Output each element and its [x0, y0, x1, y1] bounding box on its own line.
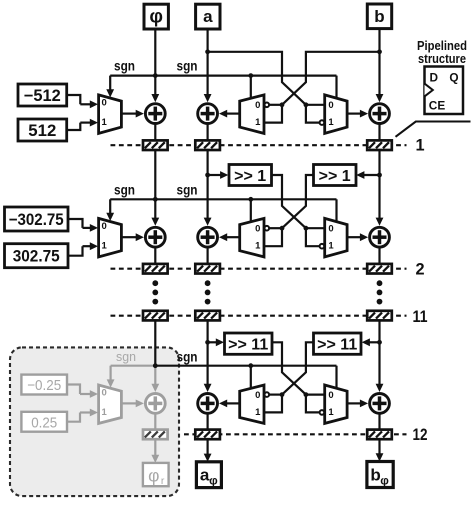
gray wire sgn left branch stage-12 — [111, 365, 156, 367]
node sgn branch to left mux stage-1 — [248, 73, 253, 78]
shifter >>1 right — [314, 165, 357, 186]
wire a adder to register stage-12 — [207, 413, 209, 429]
register R2p phi stage-2 — [143, 264, 168, 274]
register R2b stage-2 — [367, 264, 392, 274]
wire b column from port to stage-1 adder — [378, 29, 380, 96]
svg-text:1: 1 — [102, 117, 108, 128]
wire a adder to register stage-2 — [207, 247, 209, 264]
svg-text:Q: Q — [449, 71, 458, 85]
svg-text:D: D — [430, 71, 439, 85]
svg-text:b: b — [370, 466, 380, 485]
gray mux M12a stage-12 — [99, 385, 122, 423]
mux M2b for a-path stage-2 — [240, 218, 264, 257]
svg-text:1: 1 — [102, 241, 108, 252]
adder U1a a-path stage-1 — [198, 104, 218, 124]
svg-text:0: 0 — [102, 388, 107, 399]
wire mux M1c output to b adder — [347, 112, 361, 114]
svg-text:b: b — [374, 7, 384, 26]
register R1p phi stage-1 — [143, 140, 168, 150]
svg-text:φ: φ — [148, 465, 159, 485]
wire register to a_phi output — [207, 439, 209, 455]
wire shifter left output cross to right mux stage-2 — [272, 175, 306, 228]
wire mux M2c input 1 path — [306, 228, 319, 246]
svg-text:φ: φ — [209, 473, 218, 487]
wire register to b_phi output — [378, 439, 380, 454]
wire a tap to shifter stage-12 — [208, 341, 217, 343]
mux M1a angle-constant select stage-1 — [99, 95, 122, 133]
constant box 302.75 — [5, 244, 69, 268]
wire a column stage-1 register to stage-2 adder — [207, 150, 209, 219]
inversion bubble on mux M1c input 1 — [320, 120, 325, 125]
flip-flop legend U-FF with D Q CE pins — [425, 67, 464, 115]
adder U2p phi-path stage-2 — [145, 227, 165, 247]
gray register R12p stage-12 — [143, 430, 168, 440]
mux M2a angle-constant select stage-2 — [99, 218, 122, 257]
adder U12b b-path stage-12 — [370, 394, 390, 414]
svg-text:0.25: 0.25 — [31, 414, 57, 431]
svg-text:1: 1 — [255, 241, 261, 252]
input port a — [196, 4, 220, 29]
wire -512 to mux input 0 — [67, 95, 81, 104]
svg-text:−0.25: −0.25 — [27, 377, 61, 394]
svg-text:1: 1 — [328, 117, 334, 128]
svg-text:0: 0 — [102, 221, 107, 232]
wire mux M2b input 1 path — [264, 228, 282, 246]
stage-12 pipeline cut dashed line — [184, 433, 407, 435]
wire mux M1b input 0 from node — [269, 104, 282, 106]
inversion bubble on mux M2c input 1 — [320, 244, 325, 249]
svg-text:0: 0 — [328, 390, 333, 401]
register R11b stage-11 — [367, 311, 392, 321]
svg-text:r: r — [161, 475, 165, 487]
gray wire mux M12a output to adder — [121, 402, 136, 404]
wire mux M1c input 1 path — [306, 105, 319, 123]
wire a column from port to stage-1 adder — [207, 29, 209, 95]
node cross left stage-2 — [280, 226, 285, 231]
svg-text:2: 2 — [415, 260, 424, 278]
svg-text:0: 0 — [255, 224, 260, 235]
wire b tap to shifter stage-12 — [369, 341, 380, 343]
wire b adder to register stage-2 — [378, 247, 380, 264]
stage-11 pipeline cut dashed line — [111, 315, 407, 317]
wire mux M12b input 1 path — [264, 395, 282, 413]
gray constant box 0.25 — [21, 412, 67, 432]
node a tap stage-12 — [205, 340, 210, 345]
stage-1 pipeline cut dashed line — [111, 144, 407, 146]
wire b adder to register stage-1 — [378, 124, 380, 141]
output box a_phi — [196, 462, 221, 488]
adder U2b b-path stage-2 — [370, 227, 390, 247]
wire sgn net left branch stage-2 — [110, 198, 155, 200]
adder U1b b-path stage-1 — [370, 104, 390, 124]
node cross right stage-1 — [304, 102, 309, 107]
register R1a stage-1 — [195, 140, 220, 150]
wire phi column stage-1 register to stage-2 adder — [154, 150, 156, 219]
svg-text:302.75: 302.75 — [13, 248, 60, 266]
legend callout line to stage-1 register — [396, 122, 471, 137]
wire mux M1b input 1 path — [264, 105, 282, 123]
wire a adder to register stage-1 — [207, 124, 209, 141]
register R12b stage-12 — [367, 430, 392, 440]
gray constant box -0.25 — [21, 375, 67, 395]
wire b adder to register stage-12 — [378, 413, 380, 429]
svg-text:1: 1 — [415, 136, 424, 154]
svg-text:512: 512 — [28, 122, 56, 140]
shifter >>11 left — [225, 333, 273, 354]
adder U2a a-path stage-2 — [198, 227, 218, 247]
wire mux M2a output to phi adder — [121, 236, 136, 238]
svg-text:structure: structure — [418, 51, 466, 66]
wire sgn net right branch stage-1 — [155, 74, 336, 76]
wire mux M12c input 0 from node — [306, 394, 325, 396]
wire a cross to right mux stage-1 — [208, 52, 306, 105]
wire shifter right output cross to left mux stage-2 — [282, 175, 314, 228]
svg-text:1: 1 — [328, 241, 334, 252]
wire mux M12c output to b adder — [347, 402, 361, 404]
ellipsis dots b column — [377, 280, 383, 286]
wire phi column from port to stage-1 adder — [154, 29, 156, 95]
shifter >>11 right — [314, 333, 362, 354]
gray wire register to phi_r output — [154, 439, 156, 456]
svg-text:φ: φ — [149, 7, 163, 28]
node cross left stage-1 — [280, 102, 285, 107]
wire b column stage-11 register to stage-12 adder — [378, 320, 380, 385]
svg-text:CE: CE — [429, 98, 446, 112]
gray adder U12p stage-12 — [145, 394, 165, 414]
svg-text:sgn: sgn — [177, 350, 198, 365]
ellipsis dots a column — [205, 280, 211, 286]
gray wire 0.25 to mux input 1 — [67, 413, 80, 422]
svg-text:sgn: sgn — [177, 182, 198, 197]
svg-text:0: 0 — [328, 100, 333, 111]
node cross right stage-12 — [304, 392, 309, 397]
wire mux M12c input 1 path — [306, 395, 319, 413]
mux M2c for b-path stage-2 — [325, 218, 347, 257]
svg-text:0: 0 — [255, 390, 260, 401]
wire mux M12b input 0 from node — [269, 394, 282, 396]
svg-text:φ: φ — [380, 474, 389, 488]
inversion bubble on mux M12c input 1 — [320, 410, 325, 415]
input port phi — [144, 4, 168, 29]
svg-text:1: 1 — [102, 407, 108, 418]
inversion bubble on mux M1b input 0 — [265, 103, 270, 108]
gray wire adder to register stage-12 — [154, 413, 156, 429]
svg-text:sgn: sgn — [116, 349, 136, 364]
svg-text:a: a — [203, 7, 213, 26]
svg-text:1: 1 — [255, 117, 261, 128]
wire sgn net right branch stage-2 — [155, 198, 336, 200]
node sgn branch to left mux stage-2 — [248, 197, 253, 202]
register R12a stage-12 — [195, 430, 220, 440]
svg-text:>> 1: >> 1 — [319, 168, 351, 185]
svg-text:>> 11: >> 11 — [317, 337, 357, 354]
node cross left stage-12 — [280, 392, 285, 397]
register R2a stage-2 — [195, 264, 220, 274]
wire phi adder to register stage-2 — [154, 247, 156, 264]
wire mux M1a output to phi adder — [121, 112, 136, 114]
register R11a stage-11 — [195, 311, 220, 321]
node cross right stage-2 — [304, 226, 309, 231]
svg-text:−302.75: −302.75 — [9, 211, 64, 229]
mux M12b for a-path stage-12 — [240, 385, 264, 423]
svg-text:>> 11: >> 11 — [228, 337, 268, 354]
wire mux M12b output to a adder — [226, 402, 240, 404]
output box b_phi — [367, 462, 393, 488]
mux M12c for b-path stage-12 — [325, 385, 347, 423]
wire mux M2b input 0 from node — [269, 227, 282, 229]
constant box -512 — [18, 84, 67, 106]
adder U12a a-path stage-12 — [198, 394, 218, 414]
svg-text:11: 11 — [413, 308, 428, 326]
gray wire -0.25 to mux input 0 — [67, 385, 80, 395]
stage-2 pipeline cut dashed line — [111, 268, 407, 270]
wire mux M2c input 0 from node — [306, 227, 325, 229]
gray optional-hardware region box — [10, 347, 179, 496]
ellipsis dots phi column — [152, 280, 158, 286]
mux M1c for b-path stage-1 — [325, 95, 347, 133]
svg-text:>> 1: >> 1 — [234, 168, 266, 185]
register R1b stage-1 — [367, 140, 392, 150]
wire 302.75 to mux input 1 — [68, 246, 83, 256]
constant box -302.75 — [5, 207, 69, 231]
svg-text:−512: −512 — [24, 87, 61, 105]
node a tap stage-2 — [205, 173, 210, 178]
input port b — [367, 4, 391, 29]
node sgn branch to left mux stage-12 — [248, 363, 253, 368]
wire mux M1c input 0 from node — [306, 104, 325, 106]
svg-text:0: 0 — [255, 100, 260, 111]
wire b cross to left mux stage-1 — [282, 52, 380, 105]
svg-text:0: 0 — [328, 224, 333, 235]
wire phi column stage-11 register to sgn tap stage-12 — [154, 320, 156, 365]
inversion bubble on mux M2b input 0 — [265, 226, 270, 231]
wire a tap to shifter stage-2 — [208, 174, 222, 176]
inversion bubble on mux M12b input 0 — [265, 392, 270, 397]
node a tap stage-1 — [205, 49, 210, 54]
wire shifter right output cross to left mux stage-12 — [282, 342, 314, 394]
wire mux M1b output to a adder — [226, 112, 240, 114]
wire -302.75 to mux input 0 — [68, 219, 83, 228]
wire 512 to mux input 1 — [67, 123, 81, 130]
node sgn tap on phi column stage-12 — [153, 363, 158, 368]
constant box 512 — [18, 119, 67, 141]
register R11p phi stage-11 — [143, 311, 168, 321]
gray output box phi_r — [143, 463, 169, 486]
node sgn tap on phi column stage-2 — [153, 197, 158, 202]
wire mux M2c output to b adder — [347, 236, 361, 238]
adder U1p phi-path stage-1 — [145, 104, 165, 124]
wire sgn net left branch stage-1 — [110, 74, 155, 76]
wire a column stage-11 register to stage-12 adder — [207, 320, 209, 385]
mux M1b for a-path stage-1 — [240, 95, 264, 133]
wire mux M2b output to a adder — [226, 236, 240, 238]
wire phi adder to register stage-1 — [154, 124, 156, 141]
node b tap stage-1 — [377, 49, 382, 54]
node sgn tap on phi column stage-1 — [153, 73, 158, 78]
wire shifter left output cross to right mux stage-12 — [272, 342, 306, 394]
wire sgn net right branch stage-12 — [155, 365, 336, 367]
svg-text:12: 12 — [413, 426, 428, 444]
svg-text:sgn: sgn — [114, 59, 135, 74]
wire b tap to shifter stage-2 — [363, 174, 379, 176]
node b tap stage-2 — [377, 173, 382, 178]
svg-text:0: 0 — [102, 98, 107, 109]
svg-text:sgn: sgn — [114, 182, 135, 197]
svg-text:1: 1 — [328, 407, 334, 418]
wire b column stage-1 register to stage-2 adder — [378, 150, 380, 219]
gray wire phi to retired adder stage-12 — [154, 366, 156, 385]
shifter >>1 left — [229, 165, 272, 186]
svg-text:1: 1 — [255, 407, 261, 418]
svg-text:sgn: sgn — [177, 59, 198, 74]
node b tap stage-12 — [377, 340, 382, 345]
